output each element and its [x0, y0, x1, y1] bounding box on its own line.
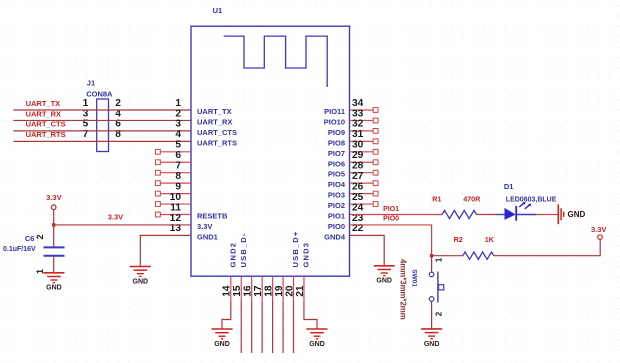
- U1 left no-connect pin stubs 5-11: [156, 149, 192, 217]
- svg-text:UART_RTS: UART_RTS: [26, 130, 66, 139]
- wire UART_TX row: [14, 109, 192, 111]
- svg-text:GND2: GND2: [228, 242, 237, 268]
- svg-text:PIO2: PIO2: [328, 201, 345, 210]
- power port 3.3V right: [598, 235, 603, 240]
- svg-text:UART_RX: UART_RX: [26, 109, 61, 118]
- svg-text:USB_D-: USB_D-: [239, 232, 248, 267]
- wire R1 to D1: [477, 214, 497, 216]
- U1 bottom pin names: [228, 230, 310, 267]
- svg-text:1: 1: [175, 98, 181, 109]
- svg-text:14: 14: [222, 285, 233, 297]
- wire UART_RTS row: [14, 140, 192, 142]
- ground under switch: [421, 329, 442, 348]
- svg-text:12: 12: [170, 213, 182, 224]
- wire switch pin2 to ground: [431, 301, 433, 329]
- svg-text:PIO1: PIO1: [383, 206, 399, 213]
- wire PIO1 to R1: [350, 214, 443, 216]
- svg-text:PIO1: PIO1: [328, 212, 345, 221]
- wire UART_CTS row: [14, 130, 192, 132]
- svg-text:470R: 470R: [463, 194, 481, 203]
- ground right of D1 rotated: [558, 204, 585, 224]
- U1 right pin numbers 22-34: [352, 98, 364, 234]
- svg-text:C6: C6: [25, 234, 35, 243]
- svg-text:28: 28: [352, 161, 364, 172]
- wire pin21 to ground: [304, 302, 317, 330]
- wire 3.3V rail to U1 pin12: [54, 224, 191, 226]
- svg-text:PIO7: PIO7: [328, 149, 345, 158]
- svg-text:PIO8: PIO8: [328, 138, 345, 147]
- wire UART_RX row: [14, 119, 192, 121]
- svg-text:15: 15: [232, 285, 243, 297]
- svg-text:PIO6: PIO6: [328, 159, 345, 168]
- svg-text:UART_RTS: UART_RTS: [197, 138, 237, 147]
- svg-text:R2: R2: [454, 235, 463, 244]
- diode D1 LED: [496, 202, 536, 221]
- ground under pin14: [212, 329, 233, 348]
- svg-text:CON8A: CON8A: [86, 89, 113, 98]
- U1 bottom pin numbers 14-21: [222, 285, 306, 297]
- svg-text:10: 10: [170, 192, 182, 203]
- ground under pin21: [307, 329, 328, 348]
- svg-text:33: 33: [352, 108, 364, 119]
- svg-text:29: 29: [352, 150, 364, 161]
- svg-text:3.3V: 3.3V: [108, 213, 123, 222]
- svg-text:RESETB: RESETB: [197, 212, 228, 221]
- svg-text:2: 2: [35, 234, 45, 239]
- svg-text:SW01: SW01: [411, 269, 418, 287]
- svg-text:18: 18: [263, 285, 274, 297]
- U1 bottom pin stubs 14-21: [231, 276, 304, 301]
- svg-text:PIO0: PIO0: [383, 216, 399, 223]
- antenna meander inside U1: [224, 36, 328, 87]
- svg-text:R1: R1: [432, 194, 441, 203]
- svg-text:GND3: GND3: [301, 242, 310, 268]
- svg-text:4mm*3mm*2mm: 4mm*3mm*2mm: [399, 259, 408, 320]
- svg-text:20: 20: [284, 285, 295, 297]
- svg-text:3.3V: 3.3V: [591, 225, 606, 234]
- resistor R1: [442, 210, 477, 218]
- ground GND1: [130, 267, 151, 286]
- junction left rail: [52, 223, 55, 226]
- svg-text:LED0603,BLUE: LED0603,BLUE: [506, 196, 557, 203]
- connector J1 body: [97, 99, 109, 152]
- svg-text:27: 27: [352, 171, 364, 182]
- resistor R2: [463, 252, 494, 259]
- IC U1 body: [191, 26, 350, 276]
- wire node to switch pin1: [431, 256, 433, 272]
- svg-text:1K: 1K: [485, 235, 495, 244]
- svg-text:2: 2: [115, 98, 121, 109]
- svg-text:5: 5: [175, 140, 181, 151]
- ground GND4: [374, 266, 395, 285]
- svg-text:D1: D1: [504, 182, 514, 191]
- svg-text:PIO9: PIO9: [328, 128, 345, 137]
- svg-text:2: 2: [435, 311, 444, 316]
- svg-text:16: 16: [243, 285, 254, 297]
- wire GND1 to ground: [140, 235, 191, 266]
- svg-text:2: 2: [175, 108, 181, 119]
- svg-text:GND4: GND4: [324, 232, 346, 241]
- svg-text:UART_TX: UART_TX: [26, 99, 61, 108]
- wire pin14 to ground: [222, 302, 231, 330]
- svg-text:9: 9: [175, 181, 181, 192]
- power port 3.3V left: [51, 205, 56, 210]
- U1 left pin numbers 1-13: [170, 98, 182, 234]
- svg-text:3: 3: [175, 119, 181, 130]
- svg-text:PIO10: PIO10: [324, 117, 345, 126]
- J1 pin numbers: [83, 98, 122, 140]
- svg-text:UART_CTS: UART_CTS: [197, 128, 237, 137]
- svg-text:GND1: GND1: [197, 232, 218, 241]
- svg-text:19: 19: [274, 285, 285, 297]
- svg-text:PIO0: PIO0: [328, 222, 345, 231]
- svg-text:4: 4: [175, 129, 181, 140]
- svg-text:3.3V: 3.3V: [46, 193, 61, 202]
- svg-text:32: 32: [352, 119, 364, 130]
- svg-text:11: 11: [170, 202, 181, 213]
- svg-text:UART_TX: UART_TX: [197, 107, 232, 116]
- wire 3.3V port down: [53, 210, 55, 225]
- svg-text:U1: U1: [213, 6, 223, 15]
- svg-text:3.3V: 3.3V: [197, 222, 212, 231]
- wire GND4 to ground: [350, 235, 385, 265]
- svg-text:PIO11: PIO11: [324, 107, 345, 116]
- svg-text:21: 21: [295, 285, 306, 297]
- svg-text:J1: J1: [87, 78, 95, 87]
- svg-text:USB_D+: USB_D+: [291, 230, 300, 267]
- svg-text:GND: GND: [568, 210, 586, 219]
- wire C6 to ground: [53, 257, 55, 273]
- svg-text:0.1uF/16V: 0.1uF/16V: [3, 246, 36, 253]
- svg-text:1: 1: [435, 257, 444, 262]
- wire node to R2: [432, 255, 463, 257]
- wire R2 to 3.3V: [494, 239, 600, 255]
- svg-text:31: 31: [352, 129, 364, 140]
- svg-text:26: 26: [352, 181, 364, 192]
- svg-text:PIO5: PIO5: [328, 170, 345, 179]
- junction at switch node: [430, 254, 433, 257]
- ground under C6: [43, 273, 64, 292]
- svg-text:17: 17: [253, 285, 264, 297]
- wires pins 15-20 down: [241, 302, 293, 354]
- svg-text:6: 6: [175, 150, 181, 161]
- wire PIO0 right and down: [350, 225, 432, 256]
- svg-text:8: 8: [175, 171, 181, 182]
- svg-text:7: 7: [175, 161, 181, 172]
- svg-text:UART_RX: UART_RX: [197, 117, 232, 126]
- svg-text:24: 24: [352, 202, 364, 213]
- capacitor C6: [44, 247, 65, 255]
- svg-text:PIO3: PIO3: [328, 191, 345, 200]
- svg-text:25: 25: [352, 192, 364, 203]
- U1 left pin names: [197, 107, 237, 241]
- svg-text:34: 34: [352, 98, 364, 109]
- switch S1 body: [429, 272, 444, 303]
- U1 right pin names: [324, 107, 346, 241]
- svg-text:PIO4: PIO4: [328, 180, 346, 189]
- wire D1 to ground: [536, 214, 558, 216]
- U1 right no-connect pin stubs 25-34: [350, 108, 379, 207]
- svg-text:1: 1: [83, 98, 89, 109]
- svg-text:30: 30: [352, 140, 364, 151]
- wire junction to C6: [53, 225, 55, 247]
